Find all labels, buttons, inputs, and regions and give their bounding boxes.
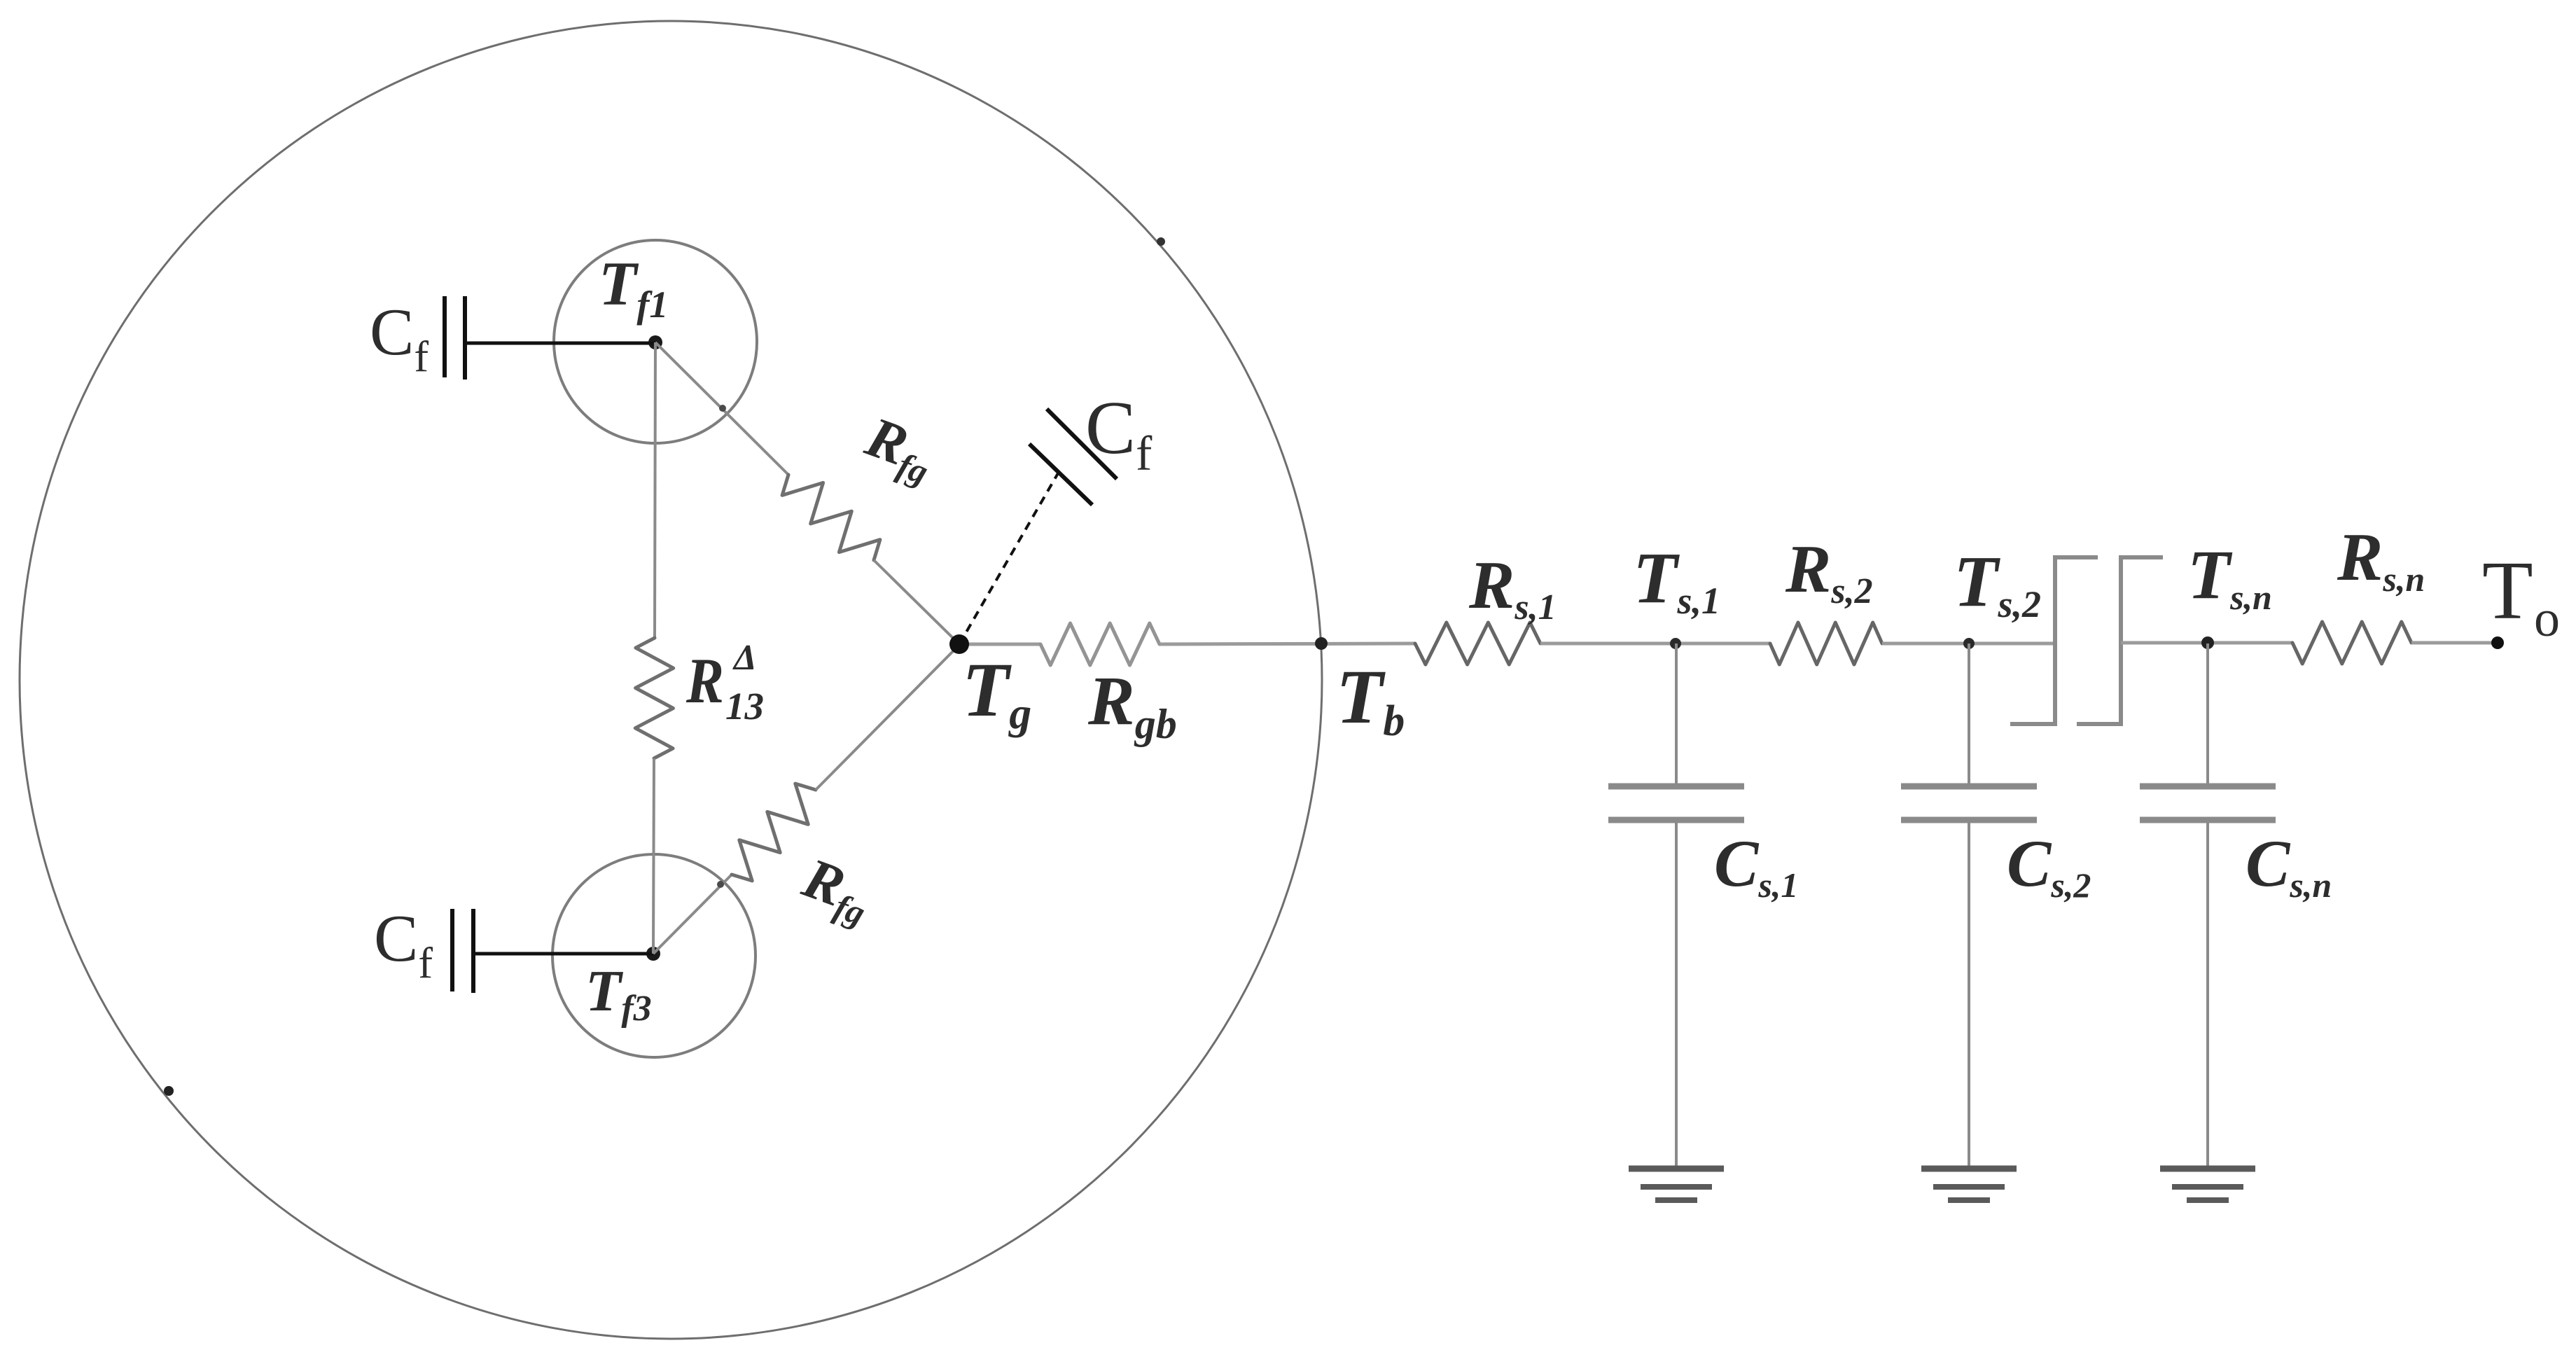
wire R_s,n to T_o — [2411, 641, 2498, 645]
dashed wire T_g to center C_f — [959, 473, 1058, 644]
wire T_f1 to R_fg (top) — [655, 342, 788, 475]
wire T_f1 to R_13 — [655, 342, 655, 638]
svg-text:Rs,n: Rs,n — [2337, 520, 2425, 599]
svg-text:Ts,1: Ts,1 — [1633, 538, 1720, 622]
junction dot on borehole circle (bottom-left) — [164, 1086, 174, 1096]
svg-text:Cs,n: Cs,n — [2246, 826, 2332, 905]
svg-text:Cs,1: Cs,1 — [1714, 826, 1798, 905]
svg-text:Rfg: Rfg — [856, 404, 944, 492]
wire C_f to node T_f1 — [467, 342, 655, 345]
svg-text:Tf3: Tf3 — [585, 959, 652, 1029]
resistor R_s,n zigzag — [2292, 622, 2411, 664]
junction dot where wire crosses pipe circle T_f1 — [719, 405, 726, 412]
svg-text:Cf: Cf — [374, 901, 433, 987]
junction dot on borehole circle (top-right) — [1157, 237, 1165, 246]
ground symbol (3) — [2160, 1166, 2255, 1172]
wire T_f3 to R_fg (bottom) — [653, 875, 732, 954]
break symbol bracket (right) — [2077, 557, 2163, 724]
svg-text:Rs,1: Rs,1 — [1468, 548, 1557, 627]
node T_f1 dot — [648, 335, 662, 349]
borehole boundary circle — [20, 21, 1322, 1339]
ground symbol (1) — [1629, 1166, 1724, 1172]
pipe circle T_f3 — [552, 854, 756, 1057]
wire C_s,1 down to ground — [1675, 820, 1678, 1169]
wire R_fg to T_g — [874, 560, 959, 644]
capacitor C_s,2 plates — [1901, 784, 2037, 790]
svg-text:13: 13 — [725, 685, 764, 728]
svg-text:Ts,2: Ts,2 — [1954, 541, 2041, 625]
wire R_gb to T_b to R_s1 — [1160, 643, 1415, 644]
node T_s,2 dot — [1963, 638, 1975, 649]
resistor R_13 (delta) zigzag — [635, 638, 673, 758]
break symbol bracket (left) — [2010, 557, 2098, 724]
capacitor C_s,n plates — [2140, 784, 2276, 790]
wire R_s,2 to T_s,2 to break — [1882, 642, 2055, 646]
ground symbol (2) — [1921, 1166, 2017, 1172]
wire T_s,n down to C_s,n — [2206, 643, 2209, 785]
resistor R_fg (top) zigzag — [782, 475, 880, 560]
svg-text:Cf: Cf — [370, 295, 429, 381]
junction dot where wire crosses pipe circle T_f3 — [717, 881, 724, 888]
resistor R_s,2 zigzag — [1770, 622, 1882, 664]
wire C_s,n down to ground — [2206, 820, 2209, 1169]
resistor R_gb zigzag — [1040, 623, 1160, 665]
svg-text:o: o — [2534, 590, 2560, 648]
resistor R_fg (bottom) zigzag — [732, 784, 816, 881]
svg-text:Ts,n: Ts,n — [2187, 536, 2272, 617]
pipe circle T_f1 — [554, 240, 757, 443]
svg-text:Cf: Cf — [1085, 387, 1153, 481]
wire T_s,2 down to C_s,2 — [1968, 643, 1970, 785]
wire T_g to R_gb — [959, 643, 1040, 646]
node T_b dot — [1315, 637, 1328, 650]
node T_f3 dot — [646, 947, 660, 961]
wire break to T_s,n to R_s,n — [2121, 641, 2292, 645]
capacitor C_f (bottom-left) plates — [450, 909, 454, 991]
svg-text:Δ: Δ — [732, 638, 757, 678]
svg-text:T: T — [2482, 544, 2533, 636]
wire T_s,1 down to C_s,1 — [1675, 643, 1678, 785]
svg-text:Tb: Tb — [1336, 654, 1405, 745]
capacitor C_f (center) plates — [1029, 444, 1092, 505]
wire C_f to node T_f3 — [475, 952, 653, 956]
wire C_s,2 down to ground — [1968, 820, 1970, 1169]
svg-text:Rs,2: Rs,2 — [1785, 531, 1873, 611]
node T_o dot — [2491, 636, 2504, 649]
capacitor C_f (top-left) plates — [443, 296, 447, 377]
svg-text:Tg: Tg — [962, 647, 1031, 738]
svg-text:Rgb: Rgb — [1087, 662, 1177, 747]
wire R_s,1 to T_s,1 to R_s,2 — [1540, 642, 1770, 646]
capacitor C_s,1 plates — [1608, 784, 1744, 790]
node T_g dot — [949, 634, 969, 654]
svg-text:R: R — [685, 645, 724, 716]
wire R_fg to T_g (bottom) — [816, 645, 959, 790]
wire R_13 to T_f3 — [653, 758, 654, 954]
svg-text:Tf1: Tf1 — [599, 250, 668, 326]
resistor R_s,1 zigzag — [1415, 622, 1540, 664]
node T_s,1 dot — [1670, 638, 1681, 649]
node T_s,n dot — [2201, 636, 2214, 649]
svg-text:Cs,2: Cs,2 — [2007, 826, 2091, 905]
svg-text:Rfg: Rfg — [793, 845, 881, 933]
